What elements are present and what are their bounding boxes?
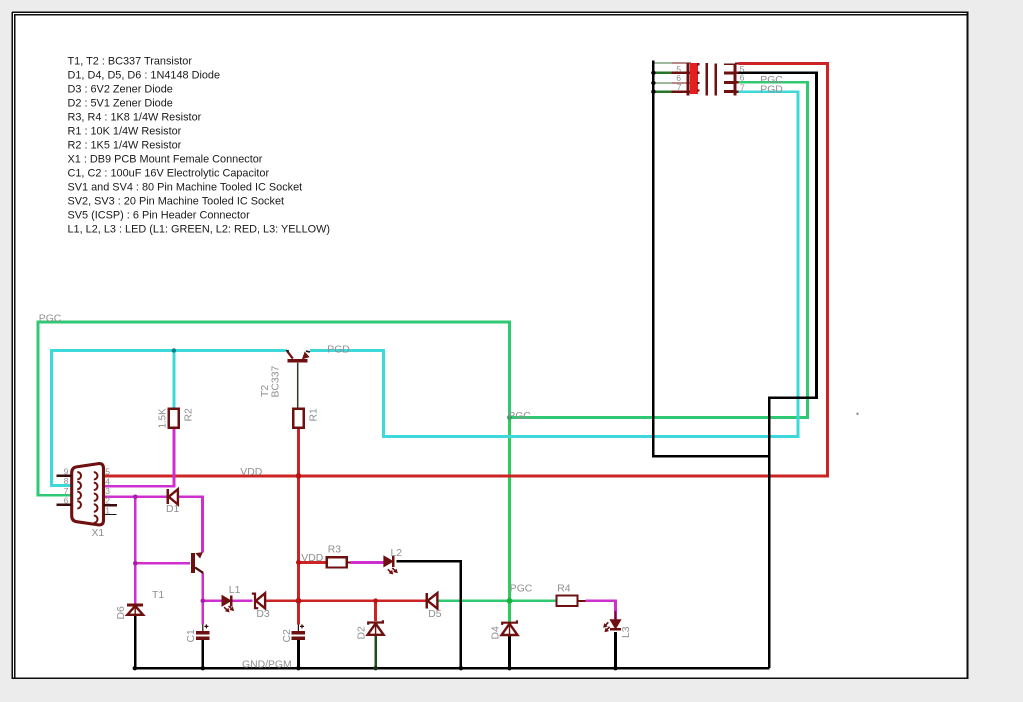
svg-text:R2: R2 bbox=[184, 408, 195, 422]
wire PGD right segment to SV5 bbox=[310, 92, 798, 437]
svg-text:R3: R3 bbox=[328, 544, 342, 555]
svg-text:PGC: PGC bbox=[510, 583, 533, 594]
svg-text:D6: D6 bbox=[116, 606, 127, 620]
svg-text:X1: X1 bbox=[92, 528, 105, 539]
svg-text:7: 7 bbox=[740, 82, 745, 92]
svg-text:D2: D2 bbox=[357, 626, 368, 640]
wire magenta branch to D6 bbox=[134, 497, 137, 605]
svg-text:PGD: PGD bbox=[760, 85, 783, 96]
wire black D6 to GND bbox=[134, 616, 137, 669]
LED L3 bbox=[603, 611, 632, 638]
wire red stub to D2 bbox=[374, 601, 377, 621]
X1 pin 9 bbox=[57, 475, 72, 477]
wire dark green D2 to GND bbox=[374, 635, 377, 668]
wire red R1 vertical bbox=[297, 428, 300, 625]
svg-text:C1: C1 bbox=[186, 629, 197, 643]
transistor T1 bbox=[152, 552, 203, 601]
svg-text:D5: D5 bbox=[428, 609, 442, 620]
wire magenta branch to T1 base bbox=[135, 562, 190, 565]
transistor T2 bbox=[260, 350, 310, 408]
svg-text:6: 6 bbox=[64, 496, 69, 506]
socket right pin stubs bbox=[697, 64, 699, 90]
svg-text:VDD: VDD bbox=[240, 467, 262, 478]
svg-text:C2: C2 bbox=[282, 629, 293, 643]
socket pin numbers left bbox=[676, 64, 682, 92]
svg-text:SV1 and SV4 : 80 Pin Machine T: SV1 and SV4 : 80 Pin Machine Tooled IC S… bbox=[68, 182, 303, 194]
connector SV5 ICSP bar bbox=[733, 63, 736, 95]
svg-text:R1 : 10K 1/4W Resistor: R1 : 10K 1/4W Resistor bbox=[68, 126, 182, 138]
svg-text:R2 : 1K5 1/4W Resistor: R2 : 1K5 1/4W Resistor bbox=[68, 140, 182, 152]
svg-text:L3: L3 bbox=[621, 626, 632, 638]
wire black SV5 GND down right side bbox=[737, 73, 817, 668]
component list text bbox=[68, 56, 331, 236]
svg-text:SV5 (ICSP) : 6 Pin Header Conn: SV5 (ICSP) : 6 Pin Header Connector bbox=[68, 210, 251, 222]
svg-text:2: 2 bbox=[105, 496, 110, 506]
svg-text:T1, T2 : BC337 Transistor: T1, T2 : BC337 Transistor bbox=[68, 56, 193, 68]
wire black L2 to GND bbox=[397, 561, 461, 668]
svg-text:7: 7 bbox=[64, 486, 69, 496]
SV5 pin numbers bbox=[740, 64, 745, 93]
capacitor C2 bbox=[282, 624, 305, 642]
socket SV3 bar bbox=[714, 63, 717, 95]
wire magenta R3 to L2 bbox=[350, 561, 384, 564]
svg-text:BC337: BC337 bbox=[271, 366, 282, 398]
svg-text:6: 6 bbox=[740, 73, 745, 83]
wire magenta L1 to D3 bbox=[232, 599, 253, 602]
svg-text:1: 1 bbox=[105, 506, 110, 516]
svg-text:X1 : DB9 PCB Mount Female Conn: X1 : DB9 PCB Mount Female Connector bbox=[68, 154, 263, 166]
wire black L3 to GND bbox=[614, 632, 617, 668]
zener D2 bbox=[357, 620, 384, 639]
resistor R3 bbox=[327, 544, 351, 567]
svg-text:VDD: VDD bbox=[301, 553, 323, 564]
SV5 right stubs bbox=[735, 63, 739, 91]
socket bar bbox=[687, 63, 690, 96]
svg-text:R4: R4 bbox=[557, 583, 571, 594]
wire VDD (red) X1 pin5 to SV5 bbox=[104, 63, 828, 476]
resistor R1 bbox=[293, 408, 319, 428]
svg-text:4: 4 bbox=[105, 476, 110, 486]
wire PGC row D5 to R4 bbox=[439, 599, 557, 602]
diode D5 bbox=[427, 593, 442, 620]
svg-text:D4: D4 bbox=[491, 626, 502, 640]
zener D3 bbox=[252, 593, 270, 620]
wire black C2 to GND bbox=[297, 640, 300, 668]
svg-text:C1, C2 : 100uF 16V Electrolyti: C1, C2 : 100uF 16V Electrolytic Capacito… bbox=[68, 168, 270, 180]
svg-text:PGC: PGC bbox=[508, 411, 531, 422]
wire magenta X1 pin3 to D1 bbox=[104, 495, 167, 498]
svg-text:8: 8 bbox=[64, 476, 69, 486]
wire PGC loop (green) bbox=[38, 322, 510, 495]
wire PGD (cyan) X1 pin8 loop bbox=[52, 351, 286, 486]
wire black socket bus vertical bbox=[653, 60, 769, 456]
svg-text:L2: L2 bbox=[391, 548, 403, 559]
LED L1 bbox=[222, 585, 240, 613]
LED L2 bbox=[384, 548, 402, 575]
svg-text:T1: T1 bbox=[152, 590, 164, 601]
svg-text:GND/PGM: GND/PGM bbox=[242, 660, 292, 671]
wire black D4 to GND bbox=[508, 635, 511, 668]
connector X1 DB9 body bbox=[72, 464, 104, 525]
svg-text:D1, D4, D5, D6 : 1N4148 Diode: D1, D4, D5, D6 : 1N4148 Diode bbox=[68, 70, 221, 82]
svg-text:1.5K: 1.5K bbox=[158, 408, 169, 429]
resistor R2 bbox=[158, 408, 195, 429]
wire PGC branch to SV5 bbox=[510, 82, 808, 417]
wire magenta D1 to T1 collector bbox=[179, 497, 203, 553]
resistor R4 bbox=[557, 583, 586, 606]
svg-text:T2: T2 bbox=[260, 385, 271, 397]
svg-text:D3 : 6V2 Zener Diode: D3 : 6V2 Zener Diode bbox=[68, 84, 173, 96]
X1 female contacts bbox=[77, 472, 97, 523]
IC socket SV1/SV4 pin rows bbox=[655, 63, 692, 92]
diode D6 bbox=[116, 605, 143, 620]
wire magenta R2 to X1 pin4 bbox=[104, 428, 174, 487]
X1 pin 2 bbox=[104, 504, 118, 506]
wire PGC vertical to D4 bbox=[508, 418, 511, 624]
wire magenta T1 emitter to C1 bbox=[201, 573, 204, 625]
svg-text:5: 5 bbox=[105, 466, 110, 476]
svg-text:7: 7 bbox=[677, 82, 682, 92]
svg-text:D3: D3 bbox=[256, 609, 270, 620]
SV5 left pin stubs bbox=[724, 64, 735, 91]
wire black C1 to GND bbox=[201, 640, 204, 668]
svg-text:D1: D1 bbox=[166, 504, 180, 515]
svg-text:SV2, SV3 : 20 Pin Machine Tool: SV2, SV3 : 20 Pin Machine Tooled IC Sock… bbox=[68, 196, 285, 208]
stray dot bbox=[856, 413, 858, 415]
svg-text:D2 : 5V1 Zener Diode: D2 : 5V1 Zener Diode bbox=[68, 98, 173, 110]
wire GND/PGM bus bbox=[135, 667, 770, 670]
capacitor C1 bbox=[186, 624, 210, 642]
zener D4 bbox=[491, 620, 518, 639]
svg-text:9: 9 bbox=[64, 466, 69, 476]
X1 pin 1 bbox=[104, 513, 117, 515]
socket red body SV1 bbox=[690, 63, 698, 94]
svg-text:R1: R1 bbox=[309, 408, 320, 422]
svg-text:R3, R4 : 1K8 1/4W Resistor: R3, R4 : 1K8 1/4W Resistor bbox=[68, 112, 202, 124]
svg-text:PGD: PGD bbox=[327, 344, 350, 355]
X1 pin 6 bbox=[57, 504, 72, 506]
wire cyan branch to R2 bbox=[172, 351, 175, 409]
X1 pin numbers bbox=[64, 466, 111, 515]
socket SV2 bar bbox=[705, 63, 708, 96]
wire red row D3 to D5 bbox=[265, 599, 426, 602]
diode D1 bbox=[166, 489, 180, 515]
wire red VDD stub to R3 bbox=[299, 561, 327, 564]
svg-text:PGC: PGC bbox=[39, 313, 62, 324]
svg-text:L1: L1 bbox=[229, 585, 241, 596]
svg-text:L1, L2, L3 : LED (L1: GREEN, L: L1, L2, L3 : LED (L1: GREEN, L2: RED, L3… bbox=[68, 224, 331, 236]
wire magenta branch to L1 bbox=[203, 599, 223, 602]
wire magenta R4 to L3 bbox=[586, 601, 616, 620]
T2 base wire bbox=[297, 363, 299, 409]
